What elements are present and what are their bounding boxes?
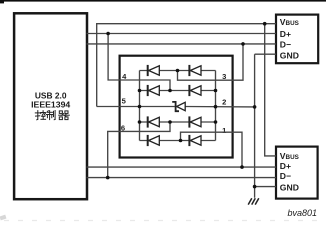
wire pin 6 to D- bottom	[108, 122, 170, 178]
junction right rail row 3	[214, 120, 218, 124]
diode D8	[189, 135, 201, 146]
wire row 3	[140, 121, 216, 123]
ground	[248, 198, 259, 204]
junction left rail row 3	[138, 120, 142, 124]
制	[47, 111, 56, 120]
connector J2 (bottom)	[276, 147, 318, 199]
wire pin 3 to D- top	[178, 44, 244, 80]
wire D+ bottom	[87, 166, 277, 168]
diode array package U2	[120, 56, 233, 158]
wire GND vertical	[254, 54, 256, 198]
diode D7	[148, 135, 160, 146]
diode D5	[148, 116, 160, 127]
wire pin 1 to D+ bottom	[181, 132, 243, 167]
wire row 2	[140, 90, 216, 92]
wire pin 5 line	[97, 106, 175, 108]
junction GND bottom	[253, 185, 257, 189]
diode D6	[189, 116, 201, 127]
junction row 3 tap	[168, 120, 172, 124]
diode D1	[148, 65, 160, 76]
svg-text:D−: D−	[280, 171, 291, 181]
svg-text:bva801: bva801	[288, 208, 318, 218]
zener diode Z1	[172, 102, 185, 111]
junction pin 2 / GND vertical	[253, 105, 257, 109]
wire left rail (pin 5 / VBUS)	[139, 71, 141, 141]
junction right rail row 2	[214, 89, 218, 93]
器	[59, 111, 70, 120]
junction row 4 tap	[179, 139, 183, 143]
junction pin 6 / D- bottom	[106, 176, 110, 180]
controller label 控制器 (drawn glyphs)	[35, 111, 69, 120]
diode D2	[189, 65, 201, 76]
svg-text:GND: GND	[280, 183, 299, 193]
junction row 1 tap	[176, 69, 180, 73]
wire D+ tap to pin 4	[108, 34, 170, 91]
wire zener to pin 2 and GND vertical	[185, 106, 255, 108]
wire VBUS top rail	[97, 24, 276, 107]
connector J1 (top)	[276, 15, 318, 64]
junction D- top / pin 3	[241, 42, 245, 46]
junction left rail row 2	[138, 89, 142, 93]
wire D+ top	[87, 33, 277, 35]
wire row 1	[140, 70, 216, 72]
wire VBUS vertical to J2	[265, 24, 276, 156]
diode D4	[189, 85, 201, 96]
wire D- bottom	[87, 177, 277, 179]
svg-text:IEEE1394: IEEE1394	[31, 100, 70, 110]
svg-text:GND: GND	[280, 51, 299, 61]
wire GND bottom	[255, 186, 276, 188]
控	[35, 111, 45, 120]
junction pin 1 / D+ bottom	[240, 165, 244, 169]
wire row 4	[140, 140, 216, 142]
svg-text:2: 2	[222, 97, 226, 106]
junction right rail pin 2	[214, 105, 218, 109]
diode D3	[148, 85, 160, 96]
junction row 2 tap	[168, 89, 172, 93]
svg-text:D+: D+	[280, 29, 291, 39]
junction D+ top / pin 4	[106, 32, 110, 36]
wire right rail (pin 2 / GND)	[215, 71, 217, 141]
junction left rail pin 5	[138, 105, 142, 109]
wire GND top	[255, 53, 276, 55]
controller U1 USB 2.0 IEEE1394	[14, 13, 87, 199]
svg-text:D−: D−	[280, 40, 291, 50]
svg-text:D+: D+	[280, 161, 291, 171]
junction VBUS top / J2 branch	[263, 22, 267, 26]
wire D- top	[87, 43, 277, 45]
